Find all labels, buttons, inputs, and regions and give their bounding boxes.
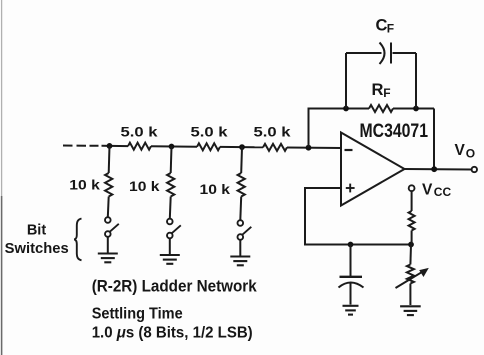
- ground GND2: [160, 255, 180, 264]
- svg-text:(R-2R) Ladder Network: (R-2R) Ladder Network: [92, 277, 258, 295]
- wire left page border line: [1, 0, 3, 355]
- potentiometer arrow head: [419, 268, 429, 277]
- ground GND4: [343, 306, 359, 315]
- resistor R3 5.0k: [263, 144, 287, 151]
- terminal VCC: [409, 185, 415, 191]
- svg-text:10 k: 10 k: [129, 178, 160, 194]
- wire bus to RF corner: [308, 109, 310, 148]
- ground GND3: [230, 257, 250, 266]
- svg-text:V: V: [422, 181, 433, 198]
- capacitor CF: [380, 43, 392, 65]
- wire RF rail: [308, 109, 435, 170]
- node dots RF rail: [343, 106, 419, 112]
- resistor R2 5.0k: [197, 143, 220, 150]
- wire summing bus: [102, 146, 342, 148]
- node dots on summing bus: [107, 143, 312, 151]
- switch SW3: [238, 220, 252, 255]
- node output junction: [431, 166, 437, 172]
- svg-text:5.0 k: 5.0 k: [121, 124, 158, 140]
- resistor R1 5.0k: [128, 143, 151, 150]
- resistor R2R-3 10k: [238, 147, 245, 220]
- resistor R2R-2 10k: [167, 147, 174, 219]
- svg-text:V: V: [455, 142, 466, 159]
- resistor R2R-1 10k: [105, 146, 112, 217]
- svg-text:MC34071: MC34071: [360, 121, 429, 142]
- svg-text:C: C: [376, 17, 388, 35]
- svg-text:Switches: Switches: [5, 241, 69, 257]
- brace: [74, 219, 81, 261]
- svg-text:CC: CC: [434, 185, 452, 199]
- svg-text:5.0 k: 5.0 k: [254, 124, 291, 140]
- wire CF loop: [346, 53, 416, 109]
- wire output: [405, 168, 472, 171]
- svg-text:Bit: Bit: [27, 223, 47, 239]
- svg-text:1.0 μs (8 Bits, 1/2 LSB): 1.0 μs (8 Bits, 1/2 LSB): [92, 325, 253, 342]
- svg-text:5.0 k: 5.0 k: [191, 124, 228, 140]
- op-amp U1 MC34071: [341, 133, 405, 206]
- svg-text:O: O: [466, 146, 475, 160]
- switch SW2: [167, 219, 181, 254]
- op-amp minus input mark: [345, 149, 353, 151]
- svg-text:F: F: [387, 21, 394, 35]
- svg-text:Settling Time: Settling Time: [92, 306, 183, 323]
- ground GND5: [400, 306, 421, 315]
- switch SW1: [105, 217, 119, 252]
- ground GND1: [98, 254, 118, 263]
- terminal VO: [472, 167, 477, 172]
- svg-text:10 k: 10 k: [69, 177, 100, 193]
- node dots bottom rail: [348, 242, 414, 248]
- svg-text:R: R: [372, 81, 384, 99]
- wire dashed input line: [63, 145, 99, 147]
- capacitor C1 bypass: [339, 245, 364, 305]
- resistor R4: [409, 191, 415, 244]
- potentiometer R5: [396, 245, 422, 306]
- svg-text:10 k: 10 k: [200, 181, 231, 197]
- op-amp plus input mark: [346, 184, 355, 193]
- resistor RF: [369, 105, 393, 112]
- wire plus-input loop: [305, 188, 412, 245]
- svg-text:F: F: [383, 86, 390, 100]
